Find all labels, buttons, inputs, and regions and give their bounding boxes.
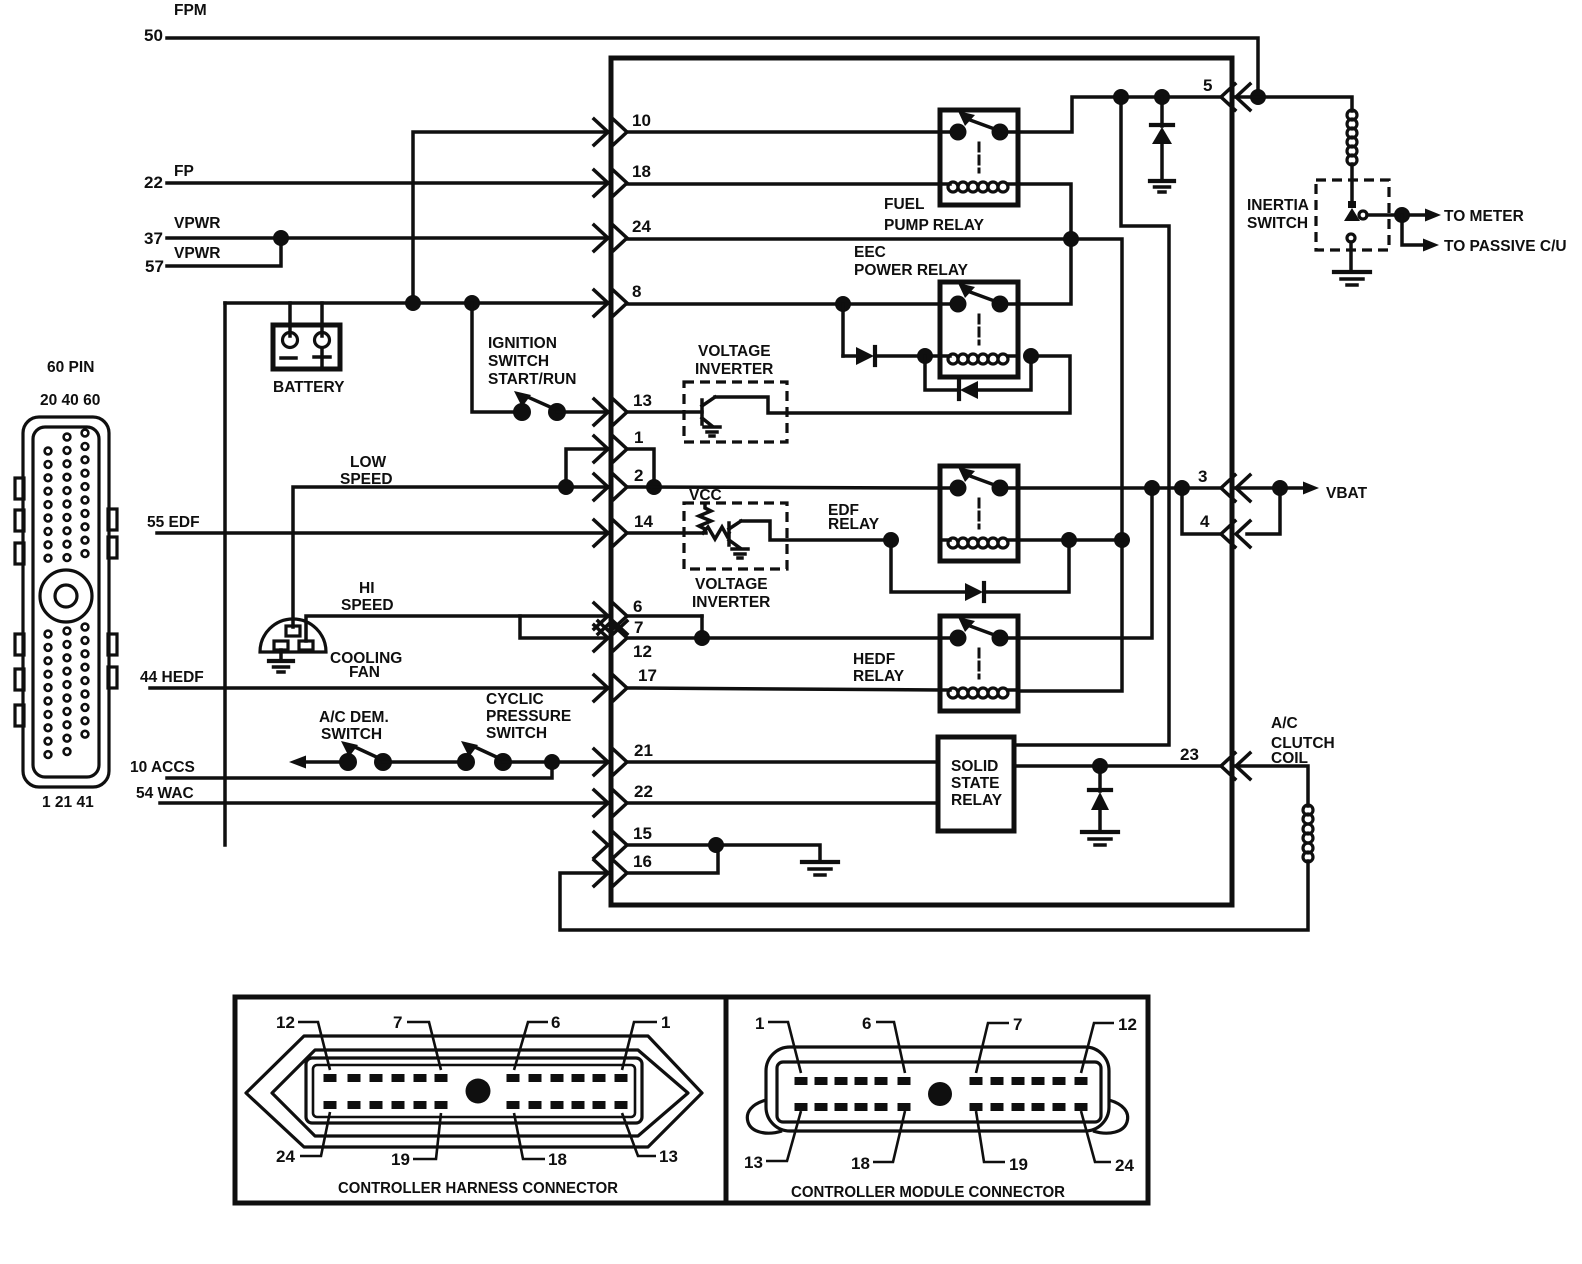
node pins 6/7 junction	[694, 630, 710, 646]
wire pin 15 to ground	[627, 845, 820, 862]
wire pin 2 to EDF relay contact	[627, 487, 940, 488]
node VBAT junction	[1272, 480, 1288, 496]
inertia switch label	[1247, 197, 1309, 232]
connector J3 pin 24 callout	[1081, 1111, 1134, 1175]
inductor L1 inertia switch coil	[1347, 110, 1357, 203]
solid state relay U4	[938, 737, 1014, 831]
node pin 1/2 junction	[646, 479, 662, 495]
connector J3 face	[777, 1062, 1101, 1122]
svg-text:18: 18	[851, 1154, 870, 1173]
wire pins 6/7 join	[627, 616, 702, 638]
node pin 15/16 junction	[708, 837, 724, 853]
diode D3 flyback across EEC relay coil	[925, 356, 1031, 399]
svg-text:17: 17	[638, 666, 657, 685]
net LOW SPEED label	[340, 454, 393, 488]
connector J2 pin 12 callout	[276, 1013, 330, 1070]
net FPM label	[144, 2, 207, 45]
connector J2 pin 18 callout	[514, 1113, 567, 1169]
EEC pin 1 connector chevrons	[594, 428, 643, 462]
net HEDF label	[140, 669, 204, 686]
svg-text:CONTROLLER MODULE CONNECTOR: CONTROLLER MODULE CONNECTOR	[791, 1184, 1065, 1201]
wire HEDF pin 44 to EEC pin 17	[150, 686, 611, 690]
svg-text:13: 13	[633, 391, 652, 410]
connector J2 face	[306, 1058, 642, 1123]
wire HI SPEED fan to EEC pin 6	[306, 616, 611, 641]
svg-text:INERTIA: INERTIA	[1247, 197, 1309, 214]
node EEC coil left junction	[917, 348, 933, 364]
svg-text:RELAY: RELAY	[853, 668, 905, 685]
svg-text:2: 2	[634, 466, 643, 485]
svg-text:16: 16	[633, 852, 652, 871]
diode D2 series into EEC relay coil	[843, 304, 940, 365]
connector J3 keyway	[928, 1082, 952, 1106]
EEC pin 24 connector chevrons	[594, 217, 651, 251]
wire battery feed bus to EEC pin 8	[225, 303, 611, 336]
wire branch up to EEC pin 10	[413, 132, 611, 303]
relay K3 EDF relay	[940, 466, 1018, 561]
EEC pin 10 connector chevrons	[594, 111, 651, 145]
net VPWR pin 57 label	[145, 245, 221, 276]
connector J2 pins bottom row	[324, 1101, 628, 1109]
wire switch to EEC pin 21	[503, 760, 611, 764]
connector J1 60-pin label	[40, 359, 100, 811]
wire LOW SPEED fan to EEC pin 2	[293, 487, 611, 627]
svg-text:FP: FP	[174, 163, 194, 180]
node diode D1 junction	[1154, 89, 1170, 105]
wire pins 6/7 to HEDF relay contact	[702, 636, 940, 640]
svg-text:VPWR: VPWR	[174, 245, 221, 262]
svg-text:1 21 41: 1 21 41	[42, 794, 94, 811]
connector J3 shell	[747, 1047, 1127, 1133]
voltage inverter U3 label	[692, 576, 770, 611]
svg-text:13: 13	[659, 1147, 678, 1166]
svg-text:SWITCH: SWITCH	[1247, 215, 1308, 232]
connector J2 pins top row	[324, 1074, 628, 1082]
svg-text:FAN: FAN	[349, 664, 380, 681]
svg-text:VOLTAGE: VOLTAGE	[698, 343, 771, 360]
A/C demand switch label	[319, 709, 389, 743]
node ACCS junction	[544, 754, 560, 770]
svg-text:44 HEDF: 44 HEDF	[140, 669, 204, 686]
node low speed junction	[558, 479, 574, 495]
connector J3 pin 1 callout	[755, 1014, 801, 1073]
net FP label	[144, 163, 194, 192]
svg-text:21: 21	[634, 741, 653, 760]
EEC pin 23 connector chevrons	[1180, 745, 1250, 779]
wire FPM pin 50 to inertia-switch node	[167, 38, 1258, 97]
svg-text:STATE: STATE	[951, 775, 1000, 792]
svg-text:7: 7	[634, 618, 643, 637]
voltage inverter U2 label	[695, 343, 773, 378]
ground D5	[1082, 832, 1118, 845]
node VPWR/EDF coil junction	[1114, 532, 1130, 548]
svg-text:23: 23	[1180, 745, 1199, 764]
connector J1 60-pin body	[15, 417, 117, 787]
connector J2 pin 19 callout	[391, 1113, 441, 1169]
svg-text:10: 10	[632, 111, 651, 130]
svg-text:24: 24	[276, 1147, 295, 1166]
svg-text:24: 24	[632, 217, 651, 236]
connector J2 pin 6 callout	[514, 1013, 560, 1070]
svg-text:1: 1	[634, 428, 643, 447]
wire VPWR 37 to EEC pin 24	[167, 236, 611, 240]
EEC pin 13 connector chevrons	[594, 391, 652, 425]
svg-text:SWITCH: SWITCH	[488, 353, 549, 370]
connector detail panel frame	[235, 997, 1148, 1203]
net VPWR pin 37 label	[144, 215, 221, 248]
svg-text:54 WAC: 54 WAC	[136, 785, 194, 802]
svg-text:20 40 60: 20 40 60	[40, 392, 100, 409]
wire branch to EEC pin 1	[566, 449, 611, 487]
svg-text:18: 18	[548, 1150, 567, 1169]
connector J3 pins bottom row	[795, 1103, 1088, 1111]
svg-text:6: 6	[551, 1013, 560, 1032]
svg-text:TO PASSIVE C/U: TO PASSIVE C/U	[1444, 238, 1567, 255]
wire pin 17 to HEDF relay coil	[627, 688, 940, 690]
wire pin 24 VPWR rail	[627, 239, 1122, 691]
wire pin 16 join pin 15	[627, 845, 718, 873]
wire pin 18 to fuel pump relay coil	[627, 182, 940, 186]
svg-text:4: 4	[1200, 512, 1210, 531]
EEC pin 5 connector chevrons	[1203, 76, 1250, 110]
svg-text:SOLID: SOLID	[951, 758, 998, 775]
cooling fan label	[330, 650, 402, 681]
svg-text:LOW: LOW	[350, 454, 387, 471]
svg-text:1: 1	[661, 1013, 670, 1032]
wire between switches	[383, 760, 466, 764]
connector J3 pin 6 callout	[862, 1014, 905, 1073]
wire HEDF relay output to VBAT net	[1018, 488, 1152, 638]
A/C demand switch S2	[289, 741, 392, 771]
net EDF label	[147, 514, 200, 531]
svg-text:15: 15	[633, 824, 652, 843]
node battery/pin10 junction	[405, 295, 421, 311]
wire pin 1 jog to pin 2 net	[627, 449, 654, 487]
relay K1 fuel pump relay	[940, 110, 1018, 205]
wire Q2 collector to EDF relay coil	[741, 521, 891, 540]
wire pin 3 to VBAT	[1236, 482, 1319, 495]
connector J3 pin 13 callout	[744, 1111, 801, 1172]
connector J3 pin 7 callout	[976, 1015, 1022, 1073]
wire pin 5 to inertia switch	[1236, 97, 1352, 111]
connector J2 keyway	[466, 1079, 491, 1104]
cooling fan motor M1	[260, 619, 326, 652]
svg-text:10 ACCS: 10 ACCS	[130, 759, 195, 776]
diode D1 clamp to ground	[1151, 97, 1173, 181]
EEC pin 21 connector chevrons	[594, 741, 653, 775]
transistor Q2	[729, 521, 741, 548]
connector J1 pin holes	[45, 430, 89, 758]
svg-text:PRESSURE: PRESSURE	[486, 708, 571, 725]
node pin 5 outside junction	[1250, 89, 1266, 105]
svg-text:18: 18	[632, 162, 651, 181]
ground Q2 emitter	[732, 549, 748, 558]
net ACCS label	[130, 759, 195, 776]
wire pin 4 stub	[1182, 488, 1221, 534]
svg-text:VBAT: VBAT	[1326, 485, 1368, 502]
svg-text:19: 19	[1009, 1155, 1028, 1174]
svg-text:INVERTER: INVERTER	[692, 594, 770, 611]
svg-text:VPWR: VPWR	[174, 215, 221, 232]
wire to passive control unit	[1402, 215, 1439, 252]
connector J3 pin 19 callout	[976, 1111, 1028, 1174]
svg-text:12: 12	[633, 642, 652, 661]
svg-text:VOLTAGE: VOLTAGE	[695, 576, 768, 593]
wire ACCS pin 10 to pressure switch	[167, 762, 552, 778]
ground D1	[1150, 181, 1174, 192]
EEC pin 18 connector chevrons	[594, 162, 651, 196]
ground pin 15	[802, 862, 838, 875]
svg-text:HI: HI	[359, 580, 375, 597]
EEC module U1 outline	[611, 58, 1232, 905]
wire WAC pin 54 to EEC pin 22	[160, 801, 611, 805]
wire pin 21 to solid state relay	[627, 760, 938, 764]
connector J3 pin 18 callout	[851, 1111, 905, 1173]
inertia switch S4 dashed box	[1316, 180, 1389, 250]
svg-text:5: 5	[1203, 76, 1212, 95]
relay K4 HEDF relay	[940, 616, 1018, 711]
node battery/ignition junction	[464, 295, 480, 311]
voltage inverter U2 dashed box	[684, 382, 787, 442]
wire solid state relay output to pin 23	[1014, 764, 1221, 768]
wire VPWR 57 joining 37	[167, 238, 281, 266]
node EDF coil junction	[883, 532, 899, 548]
svg-text:12: 12	[1118, 1015, 1137, 1034]
svg-text:START/RUN: START/RUN	[488, 371, 576, 388]
svg-text:A/C: A/C	[1271, 715, 1298, 732]
svg-text:SWITCH: SWITCH	[486, 725, 547, 742]
svg-text:HEDF: HEDF	[853, 651, 895, 668]
ground inertia switch	[1334, 272, 1370, 285]
net VCC label	[689, 487, 722, 504]
wire A/C clutch coil return to pin 16	[560, 861, 1308, 930]
node A/C clamp diode junction	[1092, 758, 1108, 774]
inertia switch S4 contacts	[1344, 201, 1367, 271]
net WAC label	[136, 785, 194, 802]
svg-text:6: 6	[633, 597, 642, 616]
connector J3 pins top row	[795, 1077, 1088, 1085]
node meter junction	[1394, 207, 1410, 223]
diode D4 flyback across EDF relay coil	[891, 540, 1069, 601]
EEC pin 14 connector chevrons	[594, 512, 653, 546]
wire pin 4 outside loop	[1247, 488, 1280, 534]
EEC pin 16 connector chevrons	[594, 852, 652, 886]
node VPWR junction	[273, 230, 289, 246]
connector J3 pin 12 callout	[1081, 1015, 1137, 1073]
connector J3 title	[791, 1184, 1065, 1201]
svg-text:INVERTER: INVERTER	[695, 361, 773, 378]
net TO PASSIVE C/U label	[1444, 238, 1567, 255]
wire EDF relay output to VBAT pin 3	[1018, 486, 1221, 490]
EEC pin 15 connector chevrons	[594, 824, 652, 858]
svg-text:PUMP RELAY: PUMP RELAY	[884, 217, 985, 234]
wire EDF pin 55 to EEC pin 14	[157, 531, 611, 535]
wire inertia switch to meter	[1367, 209, 1441, 222]
wire pin 8 to EEC power relay contact	[627, 302, 940, 306]
node pin 8 diode junction	[835, 296, 851, 312]
svg-text:TO METER: TO METER	[1444, 208, 1524, 225]
svg-text:60 PIN: 60 PIN	[47, 359, 94, 376]
connector J1 keyway	[40, 570, 92, 622]
connector J2 title	[338, 1180, 618, 1197]
resistor R2 base series	[703, 527, 729, 539]
wire fuel pump coil to VPWR vertical	[1018, 184, 1071, 304]
svg-text:IGNITION: IGNITION	[488, 335, 557, 352]
svg-text:EEC: EEC	[854, 244, 886, 261]
svg-text:50: 50	[144, 26, 163, 45]
wire EDF coil to VPWR	[1018, 538, 1122, 542]
ignition switch label	[488, 335, 576, 388]
EDF relay label	[828, 502, 880, 533]
ignition switch S1 START/RUN	[472, 303, 611, 421]
inductor L2 A/C clutch coil	[1303, 805, 1313, 862]
ground Q1 emitter	[704, 427, 720, 436]
svg-text:22: 22	[634, 782, 653, 801]
wire pin 10 to fuel pump relay contact	[627, 130, 940, 134]
wire pin 22 to solid state relay	[627, 801, 938, 805]
connector J2 pin 7 callout	[393, 1013, 441, 1070]
svg-text:57: 57	[145, 257, 164, 276]
EEC pin 3 connector chevrons	[1198, 467, 1250, 501]
connector J2 pin 13 callout	[622, 1113, 678, 1166]
A/C clutch coil label	[1271, 715, 1335, 767]
fuel pump relay label	[884, 196, 985, 234]
svg-text:CONTROLLER HARNESS CONNECTOR: CONTROLLER HARNESS CONNECTOR	[338, 1180, 618, 1197]
cyclic pressure switch label	[486, 691, 571, 742]
svg-text:12: 12	[276, 1013, 295, 1032]
svg-text:22: 22	[144, 173, 163, 192]
svg-text:CYCLIC: CYCLIC	[486, 691, 544, 708]
voltage inverter U3 dashed box	[684, 503, 787, 569]
svg-text:37: 37	[144, 229, 163, 248]
wire pin 14 to VCC voltage inverter	[627, 531, 706, 535]
cyclic pressure switch S3	[457, 741, 512, 771]
ground fan	[269, 650, 293, 672]
EEC pin 4 connector chevrons	[1200, 512, 1250, 547]
svg-text:24: 24	[1115, 1156, 1134, 1175]
svg-text:19: 19	[391, 1150, 410, 1169]
svg-text:1: 1	[755, 1014, 764, 1033]
svg-text:A/C DEM.: A/C DEM.	[319, 709, 389, 726]
EEC pin 17 connector chevrons	[594, 666, 657, 701]
HEDF relay label	[853, 651, 905, 685]
wire Q1 collector to EEC power relay coil	[715, 356, 1070, 413]
net TO METER label	[1444, 208, 1524, 225]
svg-text:POWER RELAY: POWER RELAY	[854, 262, 969, 279]
connector J2 harness shell	[246, 1036, 702, 1147]
EEC pin 8 connector chevrons	[594, 282, 641, 316]
node pin 3/4 junction	[1174, 480, 1190, 496]
battery B1	[273, 325, 345, 396]
wire fuel pump relay output to pin 5 feed	[1018, 97, 1221, 132]
relay K2 EEC power relay	[940, 282, 1018, 377]
net VBAT label	[1326, 485, 1368, 502]
svg-text:55 EDF: 55 EDF	[147, 514, 200, 531]
node battery feed junction A	[1113, 89, 1129, 105]
svg-text:13: 13	[744, 1153, 763, 1172]
svg-text:SWITCH: SWITCH	[321, 726, 382, 743]
diode D5 clamp to ground	[1089, 766, 1111, 832]
svg-text:RELAY: RELAY	[828, 516, 880, 533]
svg-text:FUEL: FUEL	[884, 196, 924, 213]
resistor R1 VCC pull-up	[699, 504, 711, 531]
net HI SPEED label	[341, 580, 394, 614]
svg-text:BATTERY: BATTERY	[273, 379, 345, 396]
EEC pin 7 connector cross	[598, 618, 643, 637]
connector J2 pin 24 callout	[276, 1112, 330, 1166]
svg-text:14: 14	[634, 512, 653, 531]
svg-text:8: 8	[632, 282, 641, 301]
EEC pin 2 connector chevrons	[594, 466, 643, 500]
node EDF flyback junction	[1061, 532, 1077, 548]
svg-text:RELAY: RELAY	[951, 792, 1003, 809]
svg-text:FPM: FPM	[174, 2, 207, 19]
wire FP pin 22 to EEC pin 18	[167, 181, 611, 185]
node EDF output/HEDF junction	[1144, 480, 1160, 496]
node EEC coil right junction	[1023, 348, 1039, 364]
wire hi speed branch to EEC pin 7	[520, 616, 611, 638]
wire battery negative down to EEC pin 15	[223, 303, 227, 845]
EEC pin 22 connector chevrons	[594, 782, 653, 816]
svg-text:7: 7	[1013, 1015, 1022, 1034]
svg-text:6: 6	[862, 1014, 871, 1033]
wire battery feed down to solid state relay	[1014, 97, 1169, 745]
wire pin 23 to A/C clutch coil	[1236, 766, 1308, 806]
connector J2 pin 1 callout	[622, 1013, 670, 1070]
node VPWR pin24 junction	[1063, 231, 1079, 247]
EEC pin 6 connector chevrons	[594, 597, 642, 629]
svg-text:SPEED: SPEED	[341, 597, 394, 614]
svg-text:3: 3	[1198, 467, 1207, 486]
EEC pin 12 connector chevrons	[594, 625, 652, 661]
transistor Q1	[702, 397, 715, 426]
svg-text:7: 7	[393, 1013, 402, 1032]
wire pin 13 to voltage inverter	[627, 410, 702, 414]
EEC power relay label	[854, 244, 969, 279]
